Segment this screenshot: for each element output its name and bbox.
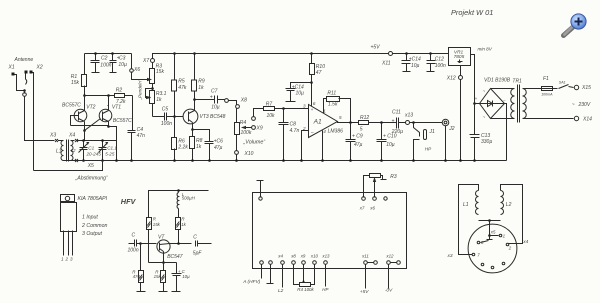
svg-text:X3: X3 [49,133,56,139]
svg-text:VT2: VT2 [86,105,95,111]
svg-text:Projekt W 01: Projekt W 01 [451,8,493,17]
wire pin6 supply [311,83,313,107]
ground [137,283,146,292]
wire coupling diagonal VT2 to VT1 base [85,119,101,131]
svg-text:47: 47 [316,70,322,76]
svg-text:+: + [392,118,395,124]
svg-text:~: ~ [572,102,575,108]
package KIA 7805API [61,195,75,202]
svg-text:10k: 10k [267,113,276,119]
svg-text:+5V: +5V [371,44,381,50]
svg-text:X1: X1 [8,65,15,71]
wire emitter node [193,130,210,142]
svg-text:R4 100k: R4 100k [297,287,314,292]
svg-text:1.5k: 1.5k [328,102,338,108]
terminal X12 [459,76,463,80]
trimmer R3 top [370,174,381,178]
resistor R1 [84,54,86,96]
svg-text:SA1: SA1 [559,81,566,85]
resistor R 15k bias [147,218,152,230]
svg-text:X8: X8 [240,98,247,104]
capacitor C13 [474,104,476,161]
wire X6 to R3 wiper [132,72,148,80]
svg-text:470: 470 [133,274,141,279]
wire L2 pin [282,265,284,288]
svg-text:X9: X9 [256,126,263,132]
svg-text:+C6: +C6 [214,138,224,144]
svg-text:3 Output: 3 Output [82,231,102,237]
wire x5 tap [489,221,491,236]
svg-text:C13: C13 [481,133,490,139]
svg-text:L2: L2 [278,288,284,294]
svg-text:+: + [311,107,314,112]
connector X6 [131,54,133,69]
svg-text:VD1 B190B: VD1 B190B [484,77,511,83]
jack J1 switch [414,123,420,137]
svg-text:2 Common: 2 Common [81,223,107,229]
svg-text:5-25: 5-25 [105,152,115,157]
wire emitter row [149,262,177,264]
terminal X15 [574,85,578,89]
svg-text:x5: x5 [490,229,496,234]
node bus C4 [130,159,133,162]
capacitor C14b [406,54,408,72]
ground spike top left [257,181,264,198]
svg-text:+ C: + C [178,269,186,274]
resistor R10 [311,54,313,83]
svg-text:x11: x11 [361,254,369,259]
svg-text:R2: R2 [116,88,123,94]
svg-text:R7: R7 [266,101,273,107]
node VT3 collector / C7 junction [193,98,196,101]
node emitter junction [162,261,165,264]
svg-text:4.7n: 4.7n [290,128,300,134]
wire primary top to fuse [523,88,542,90]
svg-text:x10: x10 [310,254,319,259]
svg-text:X5: X5 [87,163,94,169]
trimmer R3.1 [152,89,154,117]
svg-text:15k: 15k [71,80,80,86]
resistor R8 [192,130,194,161]
variable capacitor C1 [83,141,85,161]
svg-text:1 Input: 1 Input [82,215,98,221]
wire R3.1 wiper tie [146,89,153,99]
node R3/R3.1 junction [151,87,154,90]
pin 8 [477,241,480,244]
node R1 bias junction [83,94,86,97]
svg-text:X7: X7 [142,58,149,64]
wire bridge AC top [491,88,515,90]
svg-text:47µ: 47µ [214,145,223,151]
svg-text:330µ: 330µ [481,139,492,145]
svg-text:+5V: +5V [360,289,369,295]
former circle [468,224,517,273]
wire tank top [77,140,117,142]
svg-text:x7: x7 [359,206,365,211]
svg-text:47µ: 47µ [354,142,363,148]
wire VR1 input from bridge [471,55,475,104]
wire C7 to X8 [218,99,225,101]
svg-text:7805: 7805 [454,54,465,60]
svg-text:X2: X2 [36,65,43,71]
ground [172,291,181,293]
wire VT1 emitter to tank right [109,127,117,161]
svg-text:Antenne: Antenne [14,57,34,63]
wire top bus X7 to X11 [153,54,389,59]
svg-text:X15: X15 [581,85,591,91]
svg-text:10µ: 10µ [386,142,395,148]
connector X10 [236,135,238,151]
wire HP pin [325,265,327,287]
capacitor +C 10u bypass [176,263,178,292]
svg-text:BC557C: BC557C [113,118,132,124]
svg-text:C8: C8 [290,121,297,127]
terminal x11 pair [364,261,368,265]
inductor L 500uH [178,191,180,193]
svg-text:x13: x13 [404,112,413,118]
svg-text:X12: X12 [446,75,456,81]
svg-text:−: − [311,130,314,136]
core [67,140,69,162]
node C9 junction [349,121,352,124]
node R10 junction [310,52,313,55]
bottom pins [481,263,484,266]
connector J2 [442,119,449,126]
svg-text:~: ~ [483,114,486,119]
svg-text:VT1: VT1 [112,105,121,111]
node VT3 emitter junction [191,128,194,131]
svg-text:230V: 230V [578,102,591,108]
connector X9 wiper [252,126,256,130]
capacitor C10 [381,123,383,161]
wire C11 to x13 [399,122,406,124]
wire L2 top to pin2 x4 [501,185,523,244]
svg-text:5pF: 5pF [193,250,203,256]
svg-text:C3: C3 [119,55,126,61]
svg-text:5: 5 [339,115,342,120]
svg-text:C: C [193,234,197,240]
ground [159,283,168,292]
wire antenna down to X3 [25,97,55,141]
svg-text:100n: 100n [100,62,111,68]
wire rail C2/C3 to X6 [85,53,132,55]
wire primary bottom to X14 [523,118,574,120]
svg-text:A1: A1 [313,118,322,125]
wire R2 to X6/C4 column [125,95,133,97]
pin 2 [506,243,509,246]
node bus x116 [115,159,118,162]
svg-text:15k: 15k [154,274,162,279]
node J1 junction [412,121,415,124]
resistor R 470 [140,244,142,271]
svg-text:1k: 1k [181,222,186,227]
resistor R9 [194,54,196,110]
wire bridge AC bottom [491,118,515,120]
svg-text:+C14: +C14 [409,56,421,62]
svg-text:1k: 1k [156,97,162,103]
resistor R6 [174,117,176,161]
svg-text:X6: X6 [133,67,140,73]
wire A(HFV) [261,265,263,279]
svg-text:4: 4 [323,129,326,134]
resistor R11 gain [324,99,327,114]
node C8 junction [282,107,285,110]
connector pot top [236,105,240,109]
svg-text:15k: 15k [153,222,161,227]
wire VT2 emitter to tank [84,131,86,141]
svg-text:VT3 BC548: VT3 BC548 [200,114,226,120]
wire bridge minus to bus [505,104,507,161]
svg-text:x12: x12 [385,254,394,259]
svg-text:1: 1 [61,257,64,262]
switch hook contact [26,74,27,85]
svg-text:x13: x13 [321,254,330,259]
svg-text:BC557C: BC557C [62,103,81,109]
terminal X11 [389,52,393,56]
wire coil bottoms join [479,220,501,222]
svg-text:10µ: 10µ [182,274,190,279]
wire main bottom bus [63,160,507,162]
terminal x12 pair [387,261,391,265]
svg-text:R11: R11 [327,91,336,97]
svg-text:„Pendeln”: „Pendeln” [137,79,142,100]
svg-text:2: 2 [508,245,512,250]
node C1 top [82,139,85,142]
svg-text:C5: C5 [162,106,169,112]
svg-text:-0V: -0V [385,288,393,294]
svg-text:3: 3 [70,257,73,262]
wire R7 to A1 pin3 [275,108,309,110]
svg-text:R5: R5 [178,79,185,85]
svg-text:500µH: 500µH [182,196,196,201]
wire pin2 to ground [302,131,309,161]
svg-text:X11: X11 [381,60,391,66]
potentiometer R4 volume [236,109,238,123]
node VT1 emitter junction [107,125,110,128]
svg-text:C1: C1 [88,146,94,151]
wire VR1 output pin to X12 [460,66,462,76]
pot R4 100k external [294,265,300,285]
wire R12 to C11 [369,122,397,124]
svg-text:10µ: 10µ [296,91,305,97]
svg-text:x4: x4 [277,254,283,259]
connector x13 [406,121,410,125]
resistor R 15k emitter [163,263,165,271]
capacitor C8 [283,109,285,161]
svg-text:C11: C11 [392,110,401,116]
svg-text:10µ: 10µ [211,104,220,110]
resistor R 1k collector [176,218,181,230]
wire pin4 to ground [322,131,324,161]
svg-text:x4: x4 [522,239,528,245]
svg-text:R12: R12 [360,115,369,121]
resistor R2 [115,94,125,98]
node VT1 collector junction [107,94,110,97]
wire X1 down to node [15,75,25,91]
resistor R7 [264,107,275,111]
svg-text:BC547: BC547 [167,254,183,260]
svg-text:220µ: 220µ [391,129,403,135]
svg-text:100n: 100n [435,63,446,69]
svg-text:min 8V: min 8V [478,46,493,51]
variable capacitor C1.1 [102,141,104,161]
capacitor C3 [112,54,114,73]
svg-text:+: + [210,94,213,100]
svg-text:6: 6 [313,101,316,106]
connector pin [23,93,27,97]
wire collector to C7 [195,99,215,101]
capacitor C12 [429,52,432,55]
svg-text:100k: 100k [241,130,252,136]
svg-text:J2: J2 [448,126,455,132]
pin 1 [499,234,502,237]
capacitor C14 decoupling [291,83,312,102]
wire X2 right contact to down line [33,73,34,171]
svg-text:~: ~ [483,89,486,94]
wire X11 to VR1 [393,53,449,55]
svg-text:47k: 47k [178,85,187,91]
pin 7 [472,253,475,256]
svg-text:1k: 1k [198,85,204,91]
node base junction [139,242,142,245]
svg-text:L2: L2 [506,202,512,208]
magnifier icon [564,14,587,36]
svg-text:L1: L1 [463,202,469,208]
ground pin2 [267,265,274,284]
svg-text:5: 5 [360,127,363,133]
node VT2 emitter junction [83,129,86,132]
svg-text:1k: 1k [196,144,202,150]
svg-text:15k: 15k [156,69,165,75]
svg-text:R9: R9 [198,79,205,85]
capacitor C6 [205,142,214,161]
wire base node to VT3 [175,116,184,118]
svg-text:C12: C12 [435,56,444,62]
resistor R12 [359,121,369,125]
connector X9 upper [252,117,256,121]
svg-text:X14: X14 [582,117,592,123]
svg-text:x8: x8 [290,254,296,259]
capacitor C9 [350,123,352,161]
regulator VR1 7805 [449,48,471,66]
svg-text:3: 3 [303,103,306,108]
connector X8 [225,99,229,103]
svg-text:HP: HP [425,147,432,152]
svg-text:X4: X4 [68,133,75,139]
wire tuning return loop [34,161,103,171]
svg-text:„Abstimmung“: „Abstimmung“ [75,176,109,182]
terminal X14 [574,116,578,120]
svg-text:−: − [503,97,506,102]
svg-text:X10: X10 [244,151,254,157]
op-amp A1 LM386 [309,105,338,138]
svg-text:x3: x3 [447,253,453,259]
svg-text:R4: R4 [240,120,247,126]
svg-text:KIA 7805API: KIA 7805API [78,196,108,202]
svg-text:100n: 100n [161,121,172,127]
svg-text:2.2k: 2.2k [177,145,188,151]
board outline [253,193,407,269]
svg-text:HFV: HFV [121,197,137,206]
svg-text:+ C9: + C9 [352,134,363,140]
svg-text:„Volume“: „Volume“ [243,140,267,146]
capacitor C2 [95,54,97,73]
svg-text:C1.1: C1.1 [107,146,117,151]
capacitor C4 [132,96,133,161]
wire X6 column down [132,95,134,97]
node C10 junction [380,121,383,124]
wire bias line to R2 [85,95,115,97]
svg-text:A (HFV): A (HFV) [242,279,261,285]
svg-text:TR1: TR1 [512,79,522,85]
svg-text:HP: HP [322,287,328,292]
wire L1 top to pin7 [459,185,479,255]
svg-text:VT: VT [158,234,165,240]
svg-text:10µ: 10µ [118,62,127,68]
node C14b junction [405,52,408,55]
svg-text:x6: x6 [369,206,375,211]
svg-text:R3: R3 [390,174,397,180]
jack J1 plug [424,130,427,140]
svg-text:10µ: 10µ [411,63,420,69]
terminal X5 mark [75,159,78,162]
svg-text:100n: 100n [128,248,139,254]
wire VT2 base return to VT1 emitter [71,125,109,127]
node C1 bottom [82,159,85,162]
svg-text:+: + [475,96,478,101]
svg-text:2: 2 [65,257,69,262]
trimmer R3 [152,63,154,89]
wire output pin5 [338,122,359,123]
node C1.1 top [101,139,104,142]
wire HFV supply rail [149,191,209,218]
svg-text:C2: C2 [101,56,108,62]
svg-text:F1: F1 [543,76,549,82]
switch SA1 [553,88,558,90]
node C13 junction [473,102,476,105]
svg-text:J1: J1 [429,129,436,135]
svg-text:C: C [132,233,136,239]
node C1.1 bottom [101,159,104,162]
svg-text:x9: x9 [300,254,306,259]
svg-text:47n: 47n [137,133,146,139]
svg-text:LM386: LM386 [328,129,344,135]
node VT3 base junction [173,115,176,118]
node collector junction [177,242,180,245]
wire node to connector [24,91,26,94]
wire R3.1 to C5 [153,116,165,118]
svg-text:100mA: 100mA [541,93,553,97]
node A junction [23,89,26,92]
resistor R5 [174,54,176,117]
terminal row circles [260,261,264,265]
